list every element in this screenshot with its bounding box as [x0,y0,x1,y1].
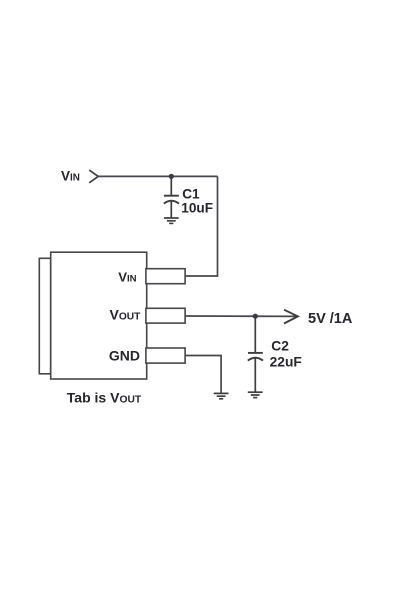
regulator U1 tab [39,258,50,374]
ground at GND pin [214,393,229,398]
wire VIN rail horizontal [98,175,217,177]
ground under C1 [164,218,179,223]
wire VOUT output [185,315,297,317]
output arrow [284,310,298,324]
regulator U1 body [51,252,147,379]
svg-text:C2: C2 [271,339,289,354]
svg-text:5V /1A: 5V /1A [308,311,353,327]
capacitor C1 [164,176,179,217]
svg-text:GND: GND [109,347,140,363]
pin VOUT of U1 [146,308,185,323]
ground under C2 [248,392,263,397]
wire GND pin to ground [185,356,221,394]
junction dot at C1 [169,174,174,179]
pin VIN of U1 [146,269,185,284]
input arrow [89,170,98,183]
capacitor C2 [248,316,263,392]
svg-text:22uF: 22uF [270,354,302,369]
svg-text:C1: C1 [182,186,200,201]
svg-text:10uF: 10uF [181,201,213,216]
wire from VIN rail down to U1 VIN pin [185,176,218,276]
pin GND of U1 [146,348,185,363]
junction dot at C2 [253,314,258,319]
